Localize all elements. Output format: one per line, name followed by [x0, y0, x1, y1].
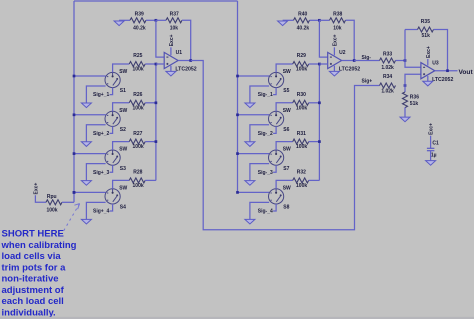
- wire Rpu to control bus: [62, 201, 74, 203]
- wire short-here dashed pointer: [63, 204, 80, 233]
- ground S5 control: [245, 103, 255, 108]
- resistor R26: [129, 92, 145, 111]
- svg-text:SW: SW: [119, 185, 127, 191]
- svg-text:R38: R38: [333, 11, 342, 17]
- wire S2 top pin: [113, 103, 130, 111]
- svg-text:S6: S6: [283, 127, 289, 133]
- svg-text:SW: SW: [119, 147, 127, 153]
- ground S4 control: [81, 219, 91, 224]
- wire S7 bottom pin: [273, 165, 276, 172]
- wire feedback left leg / inverting input: [405, 30, 421, 68]
- wire control+ S8: [238, 191, 270, 193]
- svg-text:Exc+: Exc+: [33, 183, 39, 195]
- resistor R39: [130, 11, 146, 31]
- wire U1 non-inverting input: [156, 63, 164, 65]
- wire U2 V+ pin: [333, 47, 335, 55]
- wire control- S7: [250, 164, 269, 181]
- svg-text:R34: R34: [383, 74, 392, 80]
- switch S8: [269, 185, 292, 210]
- wire U2 non-inverting input: [319, 63, 327, 65]
- wire R31 to summing bus: [309, 141, 320, 143]
- svg-text:Exc+: Exc+: [332, 34, 338, 46]
- ground S1 control: [81, 103, 91, 108]
- svg-text:1.02k: 1.02k: [381, 89, 394, 95]
- svg-text:40.2k: 40.2k: [133, 25, 146, 31]
- svg-text:40.2k: 40.2k: [297, 25, 310, 31]
- resistor R37: [156, 19, 166, 21]
- wire Exc+ to Rpu: [35, 195, 46, 202]
- wire S7 top pin: [276, 142, 293, 150]
- wire Sig- U2 output to R33: [354, 60, 379, 62]
- wire summing bus U1: [155, 64, 157, 180]
- svg-text:load cells via: load cells via: [2, 251, 62, 262]
- svg-text:Exc+: Exc+: [169, 34, 175, 46]
- svg-text:Vout: Vout: [459, 69, 474, 76]
- svg-text:10k: 10k: [170, 25, 179, 31]
- wire U1 output: [178, 60, 191, 62]
- wire control- S6: [250, 125, 269, 142]
- wire control- S3: [86, 164, 105, 181]
- wire R40 to node A: [310, 19, 320, 21]
- wire U3 V+ pin: [427, 59, 429, 66]
- svg-text:U3: U3: [432, 60, 439, 66]
- wire R30 to summing bus: [309, 102, 320, 104]
- wire S3 bottom pin: [110, 165, 113, 172]
- wire R38 to output: [346, 20, 355, 60]
- svg-text:adjustment of: adjustment of: [2, 285, 65, 296]
- svg-text:Sig-: Sig-: [362, 55, 372, 61]
- resistor R27: [129, 131, 145, 150]
- node U3 output junction: [446, 69, 449, 72]
- wire control- S8: [250, 202, 269, 219]
- svg-text:U1: U1: [176, 50, 183, 56]
- wire middle control bus: [237, 1, 239, 192]
- wire R35 to output: [434, 30, 448, 71]
- wire S5 bottom pin: [273, 88, 276, 95]
- wire S8 bottom pin: [273, 204, 276, 211]
- wire control+ S6: [238, 114, 270, 116]
- node control bus junction S8: [236, 191, 239, 194]
- wire U3 output: [435, 70, 458, 72]
- annotation SHORT HERE note: [1, 229, 77, 319]
- switch S2: [105, 108, 128, 133]
- svg-text:SHORT HERE: SHORT HERE: [2, 229, 64, 240]
- ground U1 supply: [166, 71, 176, 76]
- wire S3 top pin: [113, 142, 130, 150]
- wire node A to inverting input: [156, 20, 164, 57]
- wire control-bus top link: [74, 0, 238, 2]
- node summing junction R26: [155, 101, 158, 104]
- window bottom edge: [0, 317, 474, 319]
- svg-text:51k: 51k: [410, 101, 419, 107]
- op-amp U2: [328, 50, 361, 72]
- wire S6 top pin: [276, 103, 293, 111]
- capacitor C1: [427, 141, 439, 159]
- wire control+ S5: [238, 75, 270, 77]
- svg-text:Sig+_2: Sig+_2: [93, 131, 109, 137]
- wire control+ S2: [74, 114, 106, 116]
- svg-text:S2: S2: [120, 127, 126, 133]
- wire C1 to ground: [430, 151, 432, 161]
- svg-text:R27: R27: [133, 131, 142, 137]
- node U3 inverting junction: [404, 59, 407, 62]
- op-amp U3: [421, 60, 454, 82]
- wire R28 to summing bus: [145, 179, 156, 181]
- svg-text:R39: R39: [135, 11, 144, 17]
- svg-text:R36: R36: [410, 95, 419, 101]
- wire R33 to U3 inverting node: [396, 60, 406, 62]
- resistor R34: [380, 74, 396, 95]
- svg-text:each load cell: each load cell: [2, 296, 64, 307]
- svg-text:R35: R35: [421, 19, 430, 25]
- resistor R35: [405, 29, 418, 31]
- node control bus junction S2: [73, 113, 76, 116]
- svg-text:R30: R30: [297, 92, 306, 98]
- node summing junction R30: [318, 101, 321, 104]
- wire S2 bottom pin: [110, 126, 113, 133]
- svg-text:100k: 100k: [133, 67, 144, 73]
- svg-text:R29: R29: [297, 53, 306, 59]
- wire R26 to summing bus: [145, 102, 156, 104]
- switch S3: [105, 147, 128, 172]
- wire R25 to summing bus: [145, 63, 156, 65]
- wire non-inverting input: [405, 74, 421, 85]
- node control bus junction S5: [236, 75, 239, 78]
- ground C1: [426, 161, 436, 166]
- svg-text:R40: R40: [298, 11, 307, 17]
- wire control- S2: [86, 125, 105, 142]
- node summing junction R29: [318, 63, 321, 66]
- svg-text:51k: 51k: [422, 33, 431, 39]
- svg-text:S4: S4: [120, 205, 126, 211]
- wire U2 output: [342, 60, 355, 62]
- svg-text:100k: 100k: [296, 144, 307, 150]
- svg-text:SW: SW: [119, 108, 127, 114]
- wire R36 to ground: [404, 108, 406, 117]
- switch S4: [105, 185, 128, 210]
- ground S2 control: [81, 142, 91, 147]
- svg-text:100k: 100k: [296, 67, 307, 73]
- wire summing bus U2: [318, 64, 320, 180]
- svg-text:S5: S5: [283, 88, 289, 94]
- svg-text:LTC2052: LTC2052: [432, 77, 453, 83]
- svg-text:1µ: 1µ: [431, 152, 437, 158]
- svg-text:Exc+: Exc+: [426, 46, 432, 58]
- svg-text:100k: 100k: [133, 183, 144, 189]
- node control bus junction S1: [73, 75, 76, 78]
- ground U2 supply: [329, 71, 339, 76]
- node U2 output junction: [353, 59, 356, 62]
- wire S4 bottom pin: [110, 204, 113, 211]
- wire R39 to node A: [146, 19, 156, 21]
- svg-text:100k: 100k: [296, 105, 307, 111]
- wire R29 to summing bus: [309, 63, 320, 65]
- switch S1: [105, 69, 128, 94]
- svg-text:R25: R25: [133, 53, 142, 59]
- svg-text:100k: 100k: [133, 144, 144, 150]
- wire node A to inverting input: [319, 20, 327, 57]
- node A feedback junction: [155, 19, 158, 22]
- wire R27 to summing bus: [145, 141, 156, 143]
- svg-text:LTC2052: LTC2052: [175, 67, 196, 73]
- svg-text:SW: SW: [283, 185, 291, 191]
- resistor R31: [293, 131, 309, 150]
- svg-text:Sig-_1: Sig-_1: [258, 92, 273, 98]
- resistor R28: [129, 170, 145, 189]
- wire control- S1: [86, 86, 105, 103]
- node control bus junction S6: [236, 113, 239, 116]
- resistor R33: [380, 52, 396, 71]
- wire control- S5: [250, 86, 269, 103]
- svg-text:R32: R32: [297, 170, 306, 176]
- svg-text:Exc+: Exc+: [429, 123, 435, 135]
- wire S6 bottom pin: [273, 126, 276, 133]
- svg-text:S1: S1: [120, 88, 126, 94]
- node control bus junction S7: [236, 152, 239, 155]
- node summing junction R27: [155, 140, 158, 143]
- svg-text:C1: C1: [432, 141, 439, 147]
- svg-text:SW: SW: [283, 108, 291, 114]
- wire U1 V+ pin: [170, 47, 172, 55]
- resistor R32: [293, 170, 309, 189]
- wire Sig+ route U1 output to R34: [191, 61, 380, 230]
- wire control+ S1: [74, 75, 106, 77]
- resistor R36: [404, 86, 406, 93]
- svg-text:R37: R37: [170, 11, 179, 17]
- ground R40 left: [283, 19, 294, 21]
- wire R32 to summing bus: [309, 179, 320, 181]
- node U3 non-inverting junction: [404, 84, 407, 87]
- wire control- S4: [86, 202, 105, 219]
- svg-text:R33: R33: [383, 52, 392, 58]
- wire S8 top pin: [276, 180, 293, 188]
- ground U3 supply: [423, 81, 433, 86]
- svg-text:SW: SW: [283, 147, 291, 153]
- node summing junction R25: [155, 63, 158, 66]
- wire control+ S4: [74, 191, 106, 193]
- switch S7: [269, 147, 292, 172]
- svg-text:SW: SW: [119, 69, 127, 75]
- node U1 output junction: [189, 59, 192, 62]
- svg-text:Sig+: Sig+: [362, 78, 373, 84]
- svg-text:S7: S7: [283, 166, 289, 172]
- node Rpu bus junction: [73, 191, 76, 194]
- resistor R40: [294, 11, 310, 31]
- svg-text:Sig+_4: Sig+_4: [93, 209, 109, 215]
- wire S1 top pin: [113, 64, 130, 72]
- ground S8 control: [245, 219, 255, 224]
- svg-text:when calibrating: when calibrating: [1, 240, 77, 251]
- op-amp U1: [164, 50, 197, 72]
- svg-text:100k: 100k: [296, 183, 307, 189]
- svg-text:S3: S3: [120, 166, 126, 172]
- node summing junction R31: [318, 140, 321, 143]
- ground S7 control: [245, 181, 255, 186]
- resistor Rpu: [46, 194, 62, 214]
- wire R37 to output: [182, 20, 191, 60]
- resistor R29: [293, 53, 309, 72]
- wire Exc+ to C1: [430, 136, 432, 149]
- wire left control bus: [73, 1, 75, 202]
- svg-text:Rpu: Rpu: [47, 194, 57, 200]
- resistor R30: [293, 92, 309, 111]
- svg-text:100k: 100k: [46, 208, 57, 214]
- ground R39 left: [119, 19, 130, 21]
- resistor R25: [129, 53, 145, 72]
- svg-text:10k: 10k: [333, 25, 342, 31]
- ground S3 control: [81, 181, 91, 186]
- wire S4 top pin: [113, 180, 130, 188]
- svg-text:Sig-_2: Sig-_2: [258, 131, 273, 137]
- wire U3 V- pin: [427, 76, 429, 81]
- svg-text:individually.: individually.: [2, 307, 56, 318]
- svg-text:SW: SW: [283, 69, 291, 75]
- resistor R38: [319, 19, 329, 21]
- wire S5 top pin: [276, 64, 293, 72]
- svg-text:1.02k: 1.02k: [381, 65, 394, 71]
- switch S6: [269, 108, 292, 133]
- svg-text:Sig-_3: Sig-_3: [258, 170, 273, 176]
- svg-text:U2: U2: [339, 50, 346, 56]
- switch S5: [269, 69, 292, 94]
- svg-text:Sig+_3: Sig+_3: [93, 170, 109, 176]
- wire control+ S3: [74, 153, 106, 155]
- node A feedback junction: [318, 19, 321, 22]
- ground S6 control: [245, 142, 255, 147]
- svg-text:Sig+_1: Sig+_1: [93, 92, 109, 98]
- svg-text:R26: R26: [133, 92, 142, 98]
- svg-text:non-iterative: non-iterative: [2, 274, 59, 285]
- wire U2 V- pin: [333, 66, 335, 72]
- node control bus junction S4: [73, 191, 76, 194]
- svg-text:LTC2052: LTC2052: [339, 67, 360, 73]
- svg-text:trim pots for a: trim pots for a: [2, 262, 67, 273]
- node control bus junction S3: [73, 152, 76, 155]
- svg-text:R31: R31: [297, 131, 306, 137]
- wire S1 bottom pin: [110, 88, 113, 95]
- svg-text:Sig-_4: Sig-_4: [258, 209, 273, 215]
- svg-text:100k: 100k: [133, 105, 144, 111]
- wire U1 V- pin: [170, 66, 172, 72]
- svg-text:R28: R28: [133, 170, 142, 176]
- svg-text:S8: S8: [283, 205, 289, 211]
- ground R36: [400, 117, 410, 122]
- wire control+ S7: [238, 153, 270, 155]
